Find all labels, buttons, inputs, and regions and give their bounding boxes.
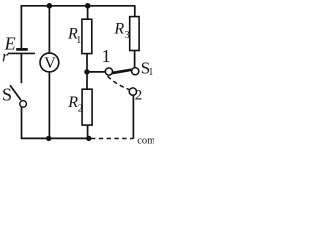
wire battery positive up [20, 5, 22, 48]
contact 2 [129, 88, 136, 95]
svg-text:com: com [137, 135, 154, 144]
svg-text:1: 1 [76, 35, 81, 46]
wire node A to contact 1 [87, 71, 106, 73]
battery E,r [8, 49, 35, 53]
label S1 [141, 58, 154, 77]
svg-text:r: r [2, 48, 9, 65]
svg-text:2: 2 [78, 103, 83, 114]
node bottom voltmeter tap [46, 136, 51, 141]
resistor R3 [130, 17, 139, 51]
wire R1 to node A [86, 54, 88, 72]
wire battery to switch S [20, 53, 22, 83]
wire top to voltmeter [48, 6, 50, 53]
switch S blade [10, 85, 21, 100]
wire node A to R2 [86, 72, 88, 89]
node bottom R2 tap [86, 136, 91, 141]
voltmeter V [40, 53, 59, 72]
wire top to R1 [87, 6, 89, 19]
svg-text:1: 1 [102, 46, 111, 66]
svg-text:S: S [2, 85, 12, 105]
wire switch S to bottom rail [21, 107, 23, 139]
svg-text:2: 2 [135, 87, 143, 103]
dashed throw arc contact1 to contact2 [108, 76, 130, 90]
node A junction (R1/R2/contact1) [84, 69, 89, 74]
label R3 [113, 21, 129, 42]
svg-text:1: 1 [148, 67, 153, 78]
wire contact 2 down [132, 95, 134, 138]
contact S1 [132, 68, 139, 75]
wire R2 to bottom rail [87, 125, 89, 138]
svg-text:R: R [113, 21, 124, 38]
contact 1 [105, 68, 112, 75]
switch S1 blade [112, 70, 132, 73]
switch S pivot contact [20, 101, 27, 108]
wire voltmeter to bottom rail [48, 72, 50, 138]
label R1 [67, 25, 81, 45]
svg-text:V: V [44, 55, 56, 72]
wire bottom rail [21, 137, 90, 139]
label R2 [67, 94, 83, 114]
resistor R1 [82, 19, 92, 53]
node top voltmeter tap [47, 3, 53, 9]
node top R1 tap [85, 3, 91, 9]
svg-text:R: R [67, 94, 78, 111]
wire dashed bottom (contact 2 branch to node) [91, 138, 133, 140]
wire top rail [21, 5, 136, 7]
svg-text:3: 3 [125, 30, 130, 41]
resistor R2 [82, 89, 92, 125]
wire top to R3 [134, 6, 136, 17]
wire R3 to switch S1 contact [134, 51, 136, 68]
